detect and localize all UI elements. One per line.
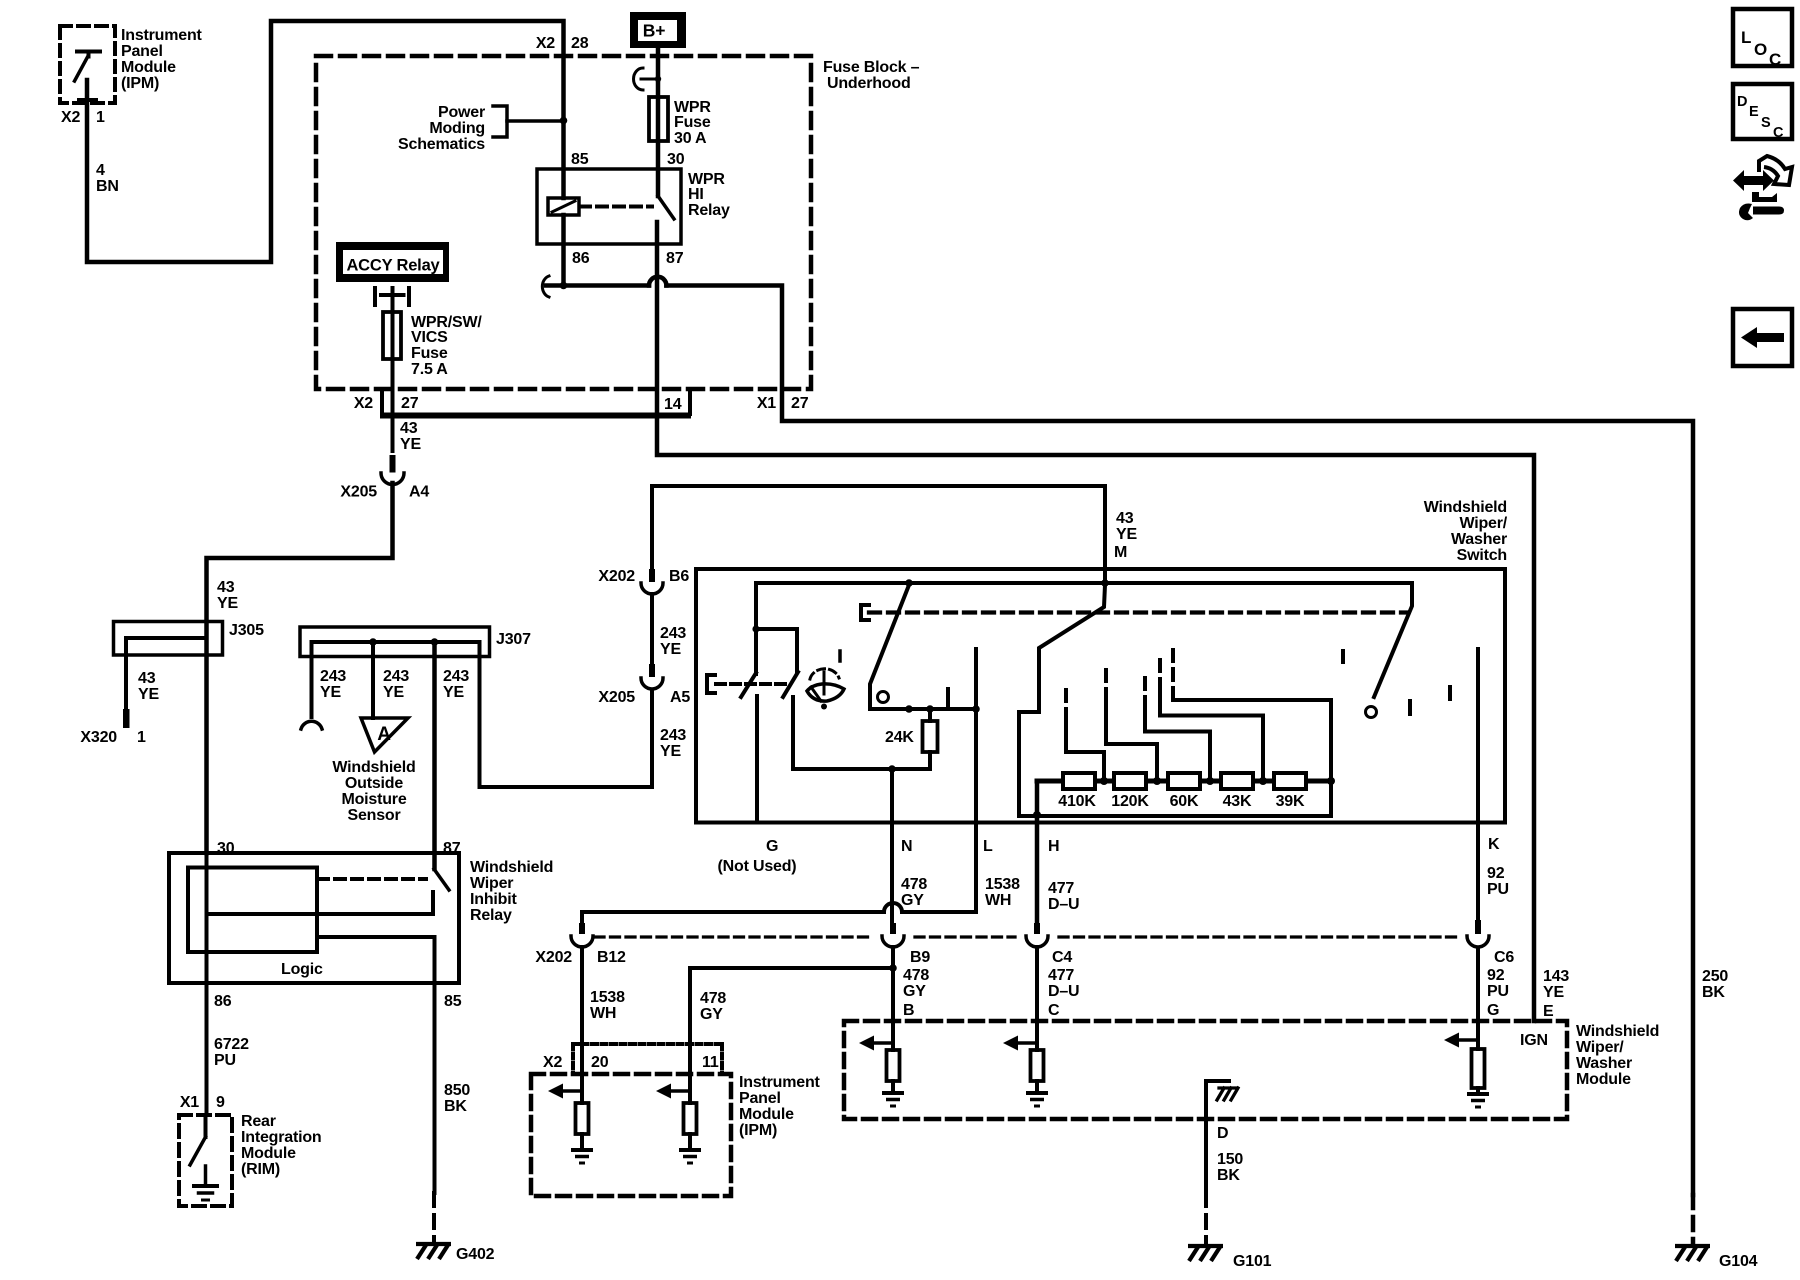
svg-text:G104: G104 [1719,1253,1758,1270]
svg-text:43: 43 [1116,510,1134,527]
svg-text:243: 243 [320,668,346,685]
svg-text:B12: B12 [597,949,626,966]
svg-text:S: S [1761,115,1771,131]
svg-text:D–U: D–U [1048,896,1079,913]
svg-text:YE: YE [443,684,464,701]
svg-text:6722: 6722 [214,1036,249,1053]
svg-text:20: 20 [591,1054,609,1071]
svg-text:Fuse: Fuse [674,114,711,131]
svg-text:GY: GY [903,983,926,1000]
svg-text:39K: 39K [1276,793,1305,810]
svg-text:4: 4 [96,162,105,179]
svg-text:1: 1 [96,109,105,126]
svg-text:Moding: Moding [429,120,485,137]
svg-text:Windshield: Windshield [332,759,415,776]
svg-text:BK: BK [444,1098,467,1115]
svg-text:HI: HI [688,186,704,203]
svg-text:Module: Module [1576,1071,1631,1088]
svg-text:WH: WH [590,1005,616,1022]
svg-text:PU: PU [1487,881,1509,898]
svg-text:Washer: Washer [1576,1055,1632,1072]
svg-text:Relay: Relay [688,202,730,219]
svg-text:Windshield: Windshield [470,859,553,876]
svg-text:1538: 1538 [985,876,1020,893]
svg-text:92: 92 [1487,967,1505,984]
svg-text:24K: 24K [885,729,914,746]
svg-text:B+: B+ [643,21,665,41]
svg-text:60K: 60K [1170,793,1199,810]
svg-text:Windshield: Windshield [1576,1023,1659,1040]
svg-text:YE: YE [383,684,404,701]
svg-text:Module: Module [241,1145,296,1162]
svg-text:Relay: Relay [470,907,512,924]
svg-text:478: 478 [901,876,927,893]
svg-text:PU: PU [214,1052,236,1069]
svg-text:YE: YE [1543,984,1564,1001]
svg-text:X205: X205 [598,689,635,706]
svg-text:X320: X320 [80,729,117,746]
svg-text:G402: G402 [456,1246,495,1263]
svg-text:H: H [1048,838,1059,855]
svg-text:BK: BK [1217,1167,1240,1184]
svg-text:C: C [1773,125,1784,141]
svg-text:30: 30 [667,151,685,168]
svg-text:D–U: D–U [1048,983,1079,1000]
svg-text:86: 86 [572,250,590,267]
svg-text:Wiper/: Wiper/ [1459,515,1507,532]
svg-text:43: 43 [400,420,418,437]
svg-text:B9: B9 [910,949,930,966]
svg-text:243: 243 [443,668,469,685]
svg-text:143: 143 [1543,968,1569,985]
svg-text:X202: X202 [535,949,572,966]
svg-text:850: 850 [444,1082,470,1099]
svg-text:M: M [1114,544,1127,561]
svg-text:Moisture: Moisture [341,791,406,808]
svg-text:GY: GY [700,1006,723,1023]
svg-text:Inhibit: Inhibit [470,891,517,908]
svg-text:243: 243 [660,625,686,642]
svg-text:(IPM): (IPM) [739,1122,777,1139]
svg-text:250: 250 [1702,968,1728,985]
svg-text:X2: X2 [543,1054,562,1071]
svg-text:477: 477 [1048,967,1074,984]
svg-text:N: N [901,838,912,855]
svg-text:YE: YE [320,684,341,701]
svg-text:PU: PU [1487,983,1509,1000]
svg-text:43: 43 [217,579,235,596]
svg-text:Outside: Outside [345,775,403,792]
svg-text:VICS: VICS [411,329,448,346]
svg-text:D: D [1737,94,1747,110]
svg-text:J307: J307 [496,631,531,648]
svg-text:YE: YE [660,743,681,760]
svg-text:150: 150 [1217,1151,1243,1168]
svg-text:87: 87 [666,250,684,267]
svg-text:X2: X2 [536,35,555,52]
svg-text:(Not Used): (Not Used) [718,858,797,875]
svg-text:27: 27 [401,395,419,412]
svg-text:120K: 120K [1111,793,1149,810]
svg-text:G: G [1487,1002,1499,1019]
svg-text:BK: BK [1702,984,1725,1001]
svg-text:243: 243 [383,668,409,685]
svg-text:X1: X1 [180,1094,199,1111]
svg-text:85: 85 [444,993,462,1010]
svg-text:Wiper/: Wiper/ [1576,1039,1624,1056]
svg-text:43K: 43K [1223,793,1252,810]
svg-text:11: 11 [702,1054,719,1071]
svg-text:Panel: Panel [121,43,163,60]
svg-text:YE: YE [138,686,159,703]
svg-text:YE: YE [1116,526,1137,543]
svg-text:G101: G101 [1233,1253,1272,1270]
svg-text:YE: YE [400,436,421,453]
svg-text:Schematics: Schematics [398,136,485,153]
svg-text:B: B [903,1002,914,1019]
svg-text:E: E [1543,1003,1554,1020]
svg-text:O: O [1754,40,1767,59]
svg-text:85: 85 [571,151,589,168]
svg-text:Washer: Washer [1451,531,1507,548]
svg-text:GY: GY [901,892,924,909]
svg-text:J305: J305 [229,622,264,639]
svg-text:X2: X2 [61,109,80,126]
svg-text:Panel: Panel [739,1090,781,1107]
svg-text:Fuse: Fuse [411,345,448,362]
svg-text:X1: X1 [757,395,776,412]
svg-text:27: 27 [791,395,809,412]
svg-text:Integration: Integration [241,1129,321,1146]
svg-text:Module: Module [739,1106,794,1123]
svg-text:Sensor: Sensor [347,807,400,824]
svg-text:E: E [1749,104,1759,120]
svg-text:Wiper: Wiper [470,875,513,892]
svg-text:43: 43 [138,670,156,687]
svg-text:X2: X2 [354,395,373,412]
svg-text:Underhood: Underhood [827,75,911,92]
svg-text:30: 30 [217,840,235,857]
svg-text:Switch: Switch [1457,547,1507,564]
svg-text:D: D [1217,1125,1228,1142]
svg-text:Instrument: Instrument [739,1074,821,1091]
svg-text:K: K [1488,836,1500,853]
svg-text:C4: C4 [1052,949,1072,966]
svg-text:(RIM): (RIM) [241,1161,280,1178]
svg-text:Windshield: Windshield [1424,499,1507,516]
svg-text:G: G [766,838,778,855]
svg-text:28: 28 [571,35,589,52]
svg-text:YE: YE [660,641,681,658]
svg-text:14: 14 [664,396,682,413]
svg-text:A4: A4 [409,484,429,501]
svg-text:C6: C6 [1494,949,1514,966]
svg-text:Power: Power [438,104,485,121]
svg-text:C: C [1769,50,1781,69]
svg-text:Module: Module [121,59,176,76]
svg-text:7.5 A: 7.5 A [411,361,448,378]
svg-text:(IPM): (IPM) [121,75,159,92]
svg-text:WH: WH [985,892,1011,909]
svg-text:Instrument: Instrument [121,27,203,44]
svg-text:L: L [1741,28,1751,47]
svg-text:478: 478 [700,990,726,1007]
svg-text:C: C [1048,1002,1060,1019]
svg-text:BN: BN [96,178,119,195]
svg-text:Logic: Logic [281,961,323,978]
svg-text:478: 478 [903,967,929,984]
svg-text:L: L [983,838,993,855]
svg-text:30 A: 30 A [674,130,707,147]
svg-text:YE: YE [217,595,238,612]
svg-text:B6: B6 [669,568,689,585]
svg-text:Fuse Block –: Fuse Block – [823,59,920,76]
svg-text:243: 243 [660,727,686,744]
svg-text:87: 87 [443,840,461,857]
svg-text:IGN: IGN [1520,1032,1548,1049]
svg-text:X205: X205 [340,484,377,501]
svg-text:86: 86 [214,993,232,1010]
svg-text:A: A [377,724,391,745]
svg-text:92: 92 [1487,865,1505,882]
svg-text:9: 9 [216,1094,225,1111]
svg-text:477: 477 [1048,880,1074,897]
svg-text:ACCY Relay: ACCY Relay [346,257,440,275]
svg-text:A5: A5 [670,689,690,706]
svg-text:X202: X202 [598,568,635,585]
svg-text:1538: 1538 [590,989,625,1006]
svg-text:Rear: Rear [241,1113,276,1130]
svg-text:1: 1 [137,729,146,746]
svg-text:410K: 410K [1058,793,1096,810]
